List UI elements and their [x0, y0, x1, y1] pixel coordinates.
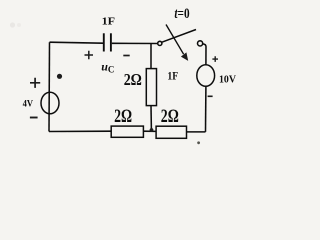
switch actuate arrow line [166, 25, 184, 55]
wire 10V to switch hook [203, 44, 206, 65]
resistor R1 2ohm vertical [146, 69, 156, 106]
svg-text:t=0: t=0 [174, 6, 189, 22]
wire top-left horizontal [50, 42, 104, 43]
plus sign of 10V [212, 56, 218, 62]
minus sign of 4V [30, 117, 38, 119]
svg-text:1F: 1F [167, 68, 178, 82]
wire between bottom resistors [143, 130, 156, 132]
svg-text:10V: 10V [219, 75, 237, 86]
node dot near 4V [57, 74, 62, 79]
svg-text:4V: 4V [23, 100, 34, 110]
wire capacitor to switch [112, 42, 158, 44]
switch right terminal [198, 41, 203, 46]
svg-text:2Ω: 2Ω [114, 106, 132, 127]
switch S left terminal [158, 41, 162, 45]
minus sign of 10V [208, 95, 213, 97]
wire bottom left [49, 130, 111, 132]
capacitor C uc plates [103, 33, 105, 51]
minus sign of capacitor [123, 55, 129, 57]
source Us2 10V circle [197, 65, 215, 87]
resistor R2 2ohm bottom-left [111, 126, 143, 137]
source Us1 4V circle [41, 92, 59, 114]
svg-text:1F: 1F [102, 15, 116, 27]
wire bottom right [187, 131, 206, 133]
svg-text:2Ω: 2Ω [161, 106, 179, 127]
smudge specks top-left [10, 22, 15, 27]
wire left branch vertical [48, 42, 51, 131]
speck bottom [197, 141, 200, 144]
svg-text:2Ω: 2Ω [124, 70, 142, 89]
wire middle branch upper [150, 44, 152, 69]
plus sign of 4V [30, 78, 40, 88]
junction dot bottom node [150, 128, 154, 132]
wire middle branch lower [150, 106, 152, 131]
resistor R3 2ohm bottom-right [156, 126, 186, 138]
wire right branch vertical [205, 86, 207, 131]
switch blade [162, 30, 196, 43]
plus sign of capacitor [85, 51, 94, 59]
switch arrowhead [181, 52, 188, 61]
